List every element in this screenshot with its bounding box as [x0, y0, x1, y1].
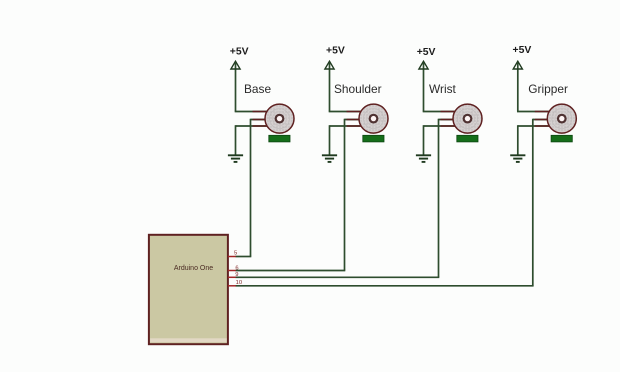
svg-text:+5V: +5V	[230, 46, 249, 57]
svg-text:6: 6	[235, 266, 238, 272]
svg-text:Arduino One: Arduino One	[174, 265, 213, 272]
svg-text:Wrist: Wrist	[429, 82, 457, 96]
svg-text:Gripper: Gripper	[528, 82, 568, 96]
svg-text:Shoulder: Shoulder	[334, 82, 382, 96]
svg-text:Base: Base	[244, 82, 271, 96]
svg-text:+5V: +5V	[513, 45, 532, 56]
svg-text:9: 9	[235, 272, 238, 278]
svg-text:5: 5	[234, 250, 237, 256]
svg-text:+5V: +5V	[417, 47, 436, 58]
svg-text:+5V: +5V	[326, 46, 345, 57]
svg-text:10: 10	[236, 280, 242, 286]
